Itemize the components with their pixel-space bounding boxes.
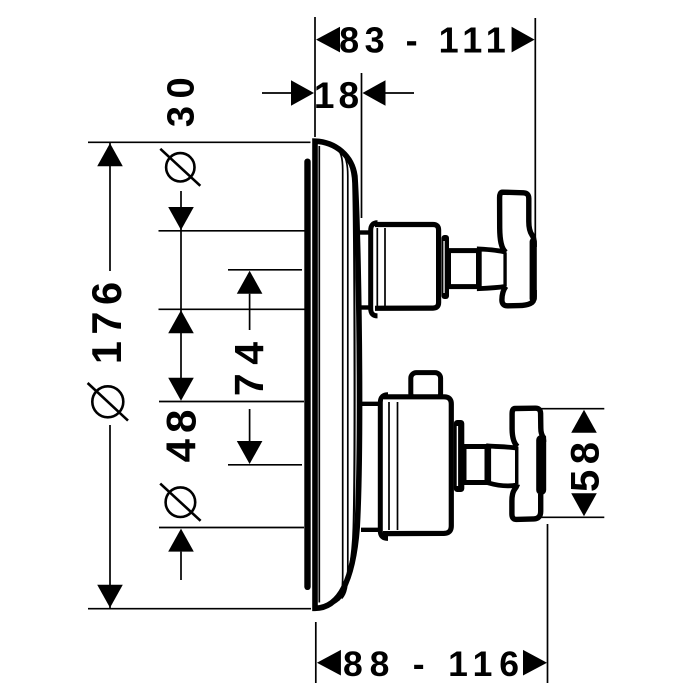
- svg-text:58: 58: [564, 436, 608, 492]
- svg-text:83 - 111: 83 - 111: [339, 20, 511, 61]
- svg-text:88 - 116: 88 - 116: [343, 644, 526, 684]
- svg-text:30: 30: [161, 70, 203, 127]
- svg-text:176: 176: [83, 275, 130, 364]
- svg-text:48: 48: [158, 404, 205, 463]
- svg-text:74: 74: [226, 333, 272, 396]
- svg-text:18: 18: [314, 75, 363, 116]
